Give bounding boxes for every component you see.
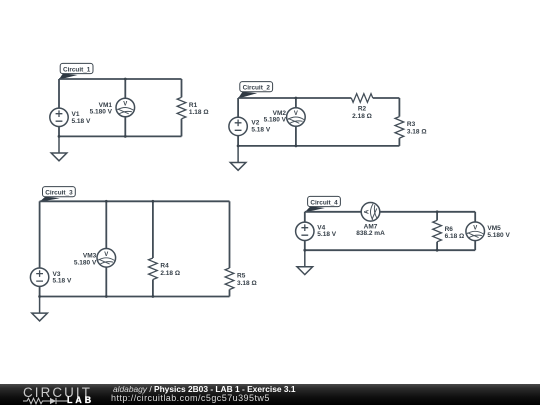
svg-text:5.18 V: 5.18 V bbox=[317, 231, 336, 238]
node: C2 bottom V2 junction bbox=[237, 145, 240, 148]
node: C1 top VM junction bbox=[124, 78, 127, 81]
wire: C4 top rail right of AM7 bbox=[380, 211, 476, 213]
node: C3 top R4 junction bbox=[152, 200, 155, 203]
node: C3 bottom R4 junction bbox=[152, 295, 155, 298]
wire: V3 top lead bbox=[39, 201, 41, 268]
svg-text:Circuit_3: Circuit_3 bbox=[45, 190, 73, 197]
node: C1 bottom V1 junction bbox=[58, 135, 61, 138]
wire: R3 bottom lead bbox=[398, 138, 400, 146]
svg-text:VM5: VM5 bbox=[487, 225, 501, 232]
wire: VM5 bottom lead bbox=[474, 241, 476, 251]
voltmeter VM3 bbox=[97, 248, 116, 267]
voltage source V3 bbox=[30, 268, 48, 286]
svg-text:A: A bbox=[365, 209, 371, 214]
svg-text:R6: R6 bbox=[445, 226, 454, 233]
wire: VM5 top lead bbox=[474, 212, 476, 222]
wire: VM3 top lead bbox=[105, 201, 107, 248]
wire: V3 bottom lead bbox=[39, 286, 41, 296]
wire: V1 bottom lead bbox=[58, 127, 60, 137]
wire: C1 bottom rail bbox=[59, 135, 182, 137]
footer title line bbox=[113, 384, 296, 394]
svg-text:5.18 V: 5.18 V bbox=[53, 278, 72, 285]
wire: VM1 top lead bbox=[124, 79, 126, 98]
wire: R5 top lead bbox=[229, 201, 231, 268]
wire: R4 bottom lead bbox=[152, 280, 154, 297]
svg-text:2.18 Ω: 2.18 Ω bbox=[160, 270, 180, 277]
resistor R3 bbox=[395, 117, 404, 139]
svg-text:838.2 mA: 838.2 mA bbox=[356, 230, 385, 237]
ground (C4) bbox=[297, 250, 313, 274]
svg-text:Circuit_2: Circuit_2 bbox=[243, 85, 271, 92]
svg-text:R2: R2 bbox=[358, 106, 367, 113]
svg-text:5.180 V: 5.180 V bbox=[264, 117, 287, 124]
svg-text:R5: R5 bbox=[237, 273, 246, 280]
CircuitLab wordmark CIRCUIT bbox=[23, 385, 92, 400]
node: C3 top VM3 junction bbox=[105, 200, 108, 203]
voltage source V1 bbox=[50, 108, 68, 126]
wire: VM2 bottom lead bbox=[295, 126, 297, 146]
wire: C3 top rail bbox=[40, 200, 230, 202]
voltmeter VM5 bbox=[466, 222, 485, 241]
ammeter AM7 bbox=[361, 203, 380, 222]
svg-text:R3: R3 bbox=[407, 121, 416, 128]
CircuitLab wordmark LAB bbox=[67, 395, 94, 405]
wire: V4 top lead bbox=[304, 212, 306, 222]
svg-text:5.180 V: 5.180 V bbox=[487, 232, 510, 239]
svg-text:V: V bbox=[294, 111, 298, 117]
resistor R2 bbox=[351, 94, 373, 103]
svg-text:Circuit_4: Circuit_4 bbox=[310, 200, 338, 207]
net label Circuit_4 bbox=[305, 196, 341, 212]
voltmeter VM1 bbox=[116, 98, 135, 117]
svg-text:3.18 Ω: 3.18 Ω bbox=[237, 280, 257, 287]
wire: VM1 bottom lead bbox=[124, 117, 126, 137]
wire: VM2 top lead bbox=[295, 98, 297, 108]
net label Circuit_3 bbox=[39, 187, 75, 202]
node: C4 bottom V4 junction bbox=[303, 249, 306, 252]
resistor R4 bbox=[149, 258, 158, 280]
ground (C2) bbox=[230, 146, 246, 170]
svg-text:6.18 Ω: 6.18 Ω bbox=[445, 233, 465, 240]
svg-text:5.180 V: 5.180 V bbox=[90, 109, 113, 116]
wire: C2 bottom rail bbox=[238, 145, 399, 147]
wire: C4 bottom rail bbox=[305, 249, 475, 251]
svg-text:5.18 V: 5.18 V bbox=[251, 126, 270, 133]
svg-text:R4: R4 bbox=[160, 263, 169, 270]
footer bar bbox=[0, 384, 540, 405]
node: C4 bottom R6 junction bbox=[436, 249, 439, 252]
svg-text:V: V bbox=[104, 252, 108, 258]
voltage source V2 bbox=[229, 117, 247, 135]
wire: C2 top rail left of R2 bbox=[238, 97, 351, 99]
svg-text:5.180 V: 5.180 V bbox=[74, 259, 97, 266]
wire: C2 top rail right of R2 bbox=[373, 97, 400, 99]
wire: R1 top lead bbox=[181, 79, 183, 97]
svg-text:V: V bbox=[123, 102, 127, 108]
svg-text:2.18 Ω: 2.18 Ω bbox=[352, 113, 372, 120]
node: C3 bottom VM3 junction bbox=[105, 295, 108, 298]
resistor R5 bbox=[225, 268, 234, 290]
net label Circuit_1 bbox=[59, 63, 93, 79]
ground (C1) bbox=[51, 136, 67, 160]
net label Circuit_2 bbox=[238, 82, 273, 99]
wire: R3 top lead bbox=[398, 98, 400, 117]
wire: R4 top lead bbox=[152, 201, 154, 258]
voltage source V4 bbox=[296, 222, 314, 240]
wire: C3 bottom rail bbox=[40, 296, 230, 298]
wire: V2 bottom lead bbox=[237, 136, 239, 146]
svg-text:Circuit_1: Circuit_1 bbox=[63, 67, 91, 74]
svg-text:5.18 V: 5.18 V bbox=[72, 118, 91, 125]
wire: R6 top lead bbox=[436, 212, 438, 221]
wire: C4 top rail left of AM7 bbox=[305, 211, 362, 213]
wire: R6 bottom lead bbox=[436, 242, 438, 250]
footer url line bbox=[111, 393, 270, 403]
node: C2 top VM junction bbox=[295, 97, 298, 100]
node: C2 bottom VM junction bbox=[295, 145, 298, 148]
resistor R6 bbox=[433, 220, 442, 242]
ground (C3) bbox=[32, 297, 48, 321]
wire: V1 top lead bbox=[58, 79, 60, 108]
resistor R1 bbox=[177, 97, 186, 119]
node: C3 bottom V3 junction bbox=[38, 295, 41, 298]
svg-text:3.18 Ω: 3.18 Ω bbox=[407, 128, 427, 135]
voltmeter VM2 bbox=[287, 108, 306, 127]
wire: C1 top rail bbox=[59, 78, 182, 80]
svg-text:1.18 Ω: 1.18 Ω bbox=[189, 109, 209, 116]
wire: VM3 bottom lead bbox=[105, 267, 107, 296]
svg-text:V: V bbox=[473, 225, 477, 231]
node: C1 bottom VM junction bbox=[124, 135, 127, 138]
svg-text:R1: R1 bbox=[189, 102, 198, 109]
CircuitLab logo resistor-diode glyph bbox=[23, 397, 69, 405]
wire: R5 bottom lead bbox=[229, 290, 231, 297]
wire: V2 top lead bbox=[237, 98, 239, 117]
wire: R1 bottom lead bbox=[181, 119, 183, 137]
node: C4 top R6 junction bbox=[436, 210, 439, 213]
wire: V4 bottom lead bbox=[304, 241, 306, 251]
